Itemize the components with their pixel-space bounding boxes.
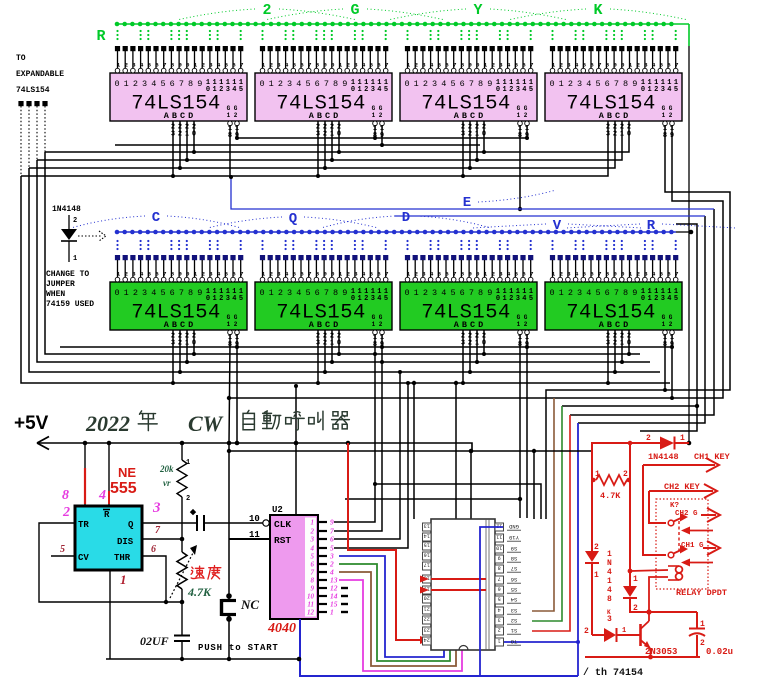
svg-text:0: 0 <box>404 288 409 298</box>
svg-text:9: 9 <box>330 518 334 527</box>
switch SW1 NC push to start <box>222 593 260 622</box>
svg-text:6: 6 <box>232 61 236 68</box>
svg-text:1: 1 <box>622 627 626 635</box>
svg-text:4: 4 <box>430 61 434 68</box>
svg-text:7: 7 <box>324 79 329 89</box>
svg-text:5: 5 <box>239 295 243 303</box>
svg-text:ABCD: ABCD <box>599 320 631 330</box>
svg-text:2: 2 <box>201 61 205 68</box>
svg-text:6: 6 <box>330 535 334 544</box>
svg-text:9: 9 <box>178 61 182 68</box>
svg-text:8: 8 <box>188 79 193 89</box>
svg-text:3: 3 <box>644 270 648 277</box>
svg-text:6: 6 <box>605 288 610 298</box>
svg-text:0: 0 <box>621 61 625 68</box>
svg-text:/ th 74154: / th 74154 <box>583 667 643 679</box>
svg-text:5: 5 <box>660 270 664 277</box>
svg-text:2: 2 <box>559 61 563 68</box>
svg-text:THR: THR <box>114 553 131 563</box>
svg-text:2: 2 <box>124 270 128 277</box>
svg-text:7: 7 <box>308 270 312 277</box>
wire mid-band to 4040 rows 3-4 <box>334 370 410 548</box>
svg-text:2: 2 <box>414 270 418 277</box>
net B-bus top (y168) <box>29 135 615 168</box>
svg-text:10: 10 <box>307 593 315 601</box>
svg-text:1: 1 <box>117 270 121 277</box>
svg-text:3: 3 <box>432 288 437 298</box>
svg-text:6: 6 <box>151 544 156 555</box>
555 pin number labels <box>60 488 161 587</box>
relay K1 coil <box>668 566 727 598</box>
capacitor C2 0.2UF <box>140 602 190 659</box>
74LS154 U3 body <box>400 73 537 121</box>
svg-text:Q: Q <box>289 211 297 227</box>
wire Q6 green <box>339 564 450 661</box>
svg-text:3: 3 <box>567 61 571 68</box>
svg-text:3: 3 <box>226 295 230 303</box>
wire GND blue bottom rail <box>297 619 578 676</box>
svg-text:1: 1 <box>607 577 612 586</box>
U8 pins A B C D (23,22,21,20) <box>606 330 631 348</box>
wire blue V net <box>395 215 705 217</box>
svg-text:8: 8 <box>607 595 612 604</box>
U1 pins G1 G2 (18,19) <box>228 121 240 140</box>
svg-text:3: 3 <box>661 295 665 303</box>
svg-text:5: 5 <box>370 61 374 68</box>
svg-text:0: 0 <box>549 79 554 89</box>
svg-text:8: 8 <box>316 61 320 68</box>
svg-text:8: 8 <box>478 288 483 298</box>
svg-text:8: 8 <box>62 488 69 503</box>
svg-text:4: 4 <box>377 86 381 94</box>
U6 pins A B C D (23,22,21,20) <box>316 330 341 348</box>
svg-text:2: 2 <box>568 288 573 298</box>
wire bus right vertical (to +5V red node) <box>688 46 690 443</box>
diode D2 1N4148 top <box>646 434 689 462</box>
svg-text:8: 8 <box>316 270 320 277</box>
svg-text:1: 1 <box>498 638 501 644</box>
svg-text:2: 2 <box>559 270 563 277</box>
svg-text:2: 2 <box>133 79 138 89</box>
svg-text:0: 0 <box>259 288 264 298</box>
svg-text:G: G <box>350 2 359 19</box>
svg-text:3: 3 <box>287 79 292 89</box>
svg-text:1: 1 <box>124 79 129 89</box>
svg-text:1: 1 <box>559 79 564 89</box>
node R (green, left) <box>96 28 105 45</box>
U7 pins G1 G2 (18,19) <box>518 330 530 349</box>
svg-text:1: 1 <box>194 270 198 277</box>
svg-text:4: 4 <box>151 79 156 89</box>
svg-text:5: 5 <box>450 79 455 89</box>
svg-text:9: 9 <box>487 79 492 89</box>
svg-text:4: 4 <box>285 270 289 277</box>
net +5V rail <box>14 413 691 453</box>
svg-text:S9: S9 <box>511 545 518 552</box>
svg-text:4: 4 <box>441 79 446 89</box>
node 2 (green bus label) <box>177 2 357 20</box>
svg-text:4: 4 <box>377 295 381 303</box>
svg-text:5: 5 <box>160 79 165 89</box>
svg-text:02UF: 02UF <box>140 634 169 648</box>
svg-text:7: 7 <box>453 61 457 68</box>
net bus-middle (blue row bus) <box>115 230 676 235</box>
node CH2 KEY <box>649 482 717 523</box>
svg-text:9: 9 <box>311 585 315 593</box>
svg-text:4: 4 <box>607 586 612 595</box>
svg-text:13: 13 <box>424 523 430 529</box>
node D (blue bus label) <box>321 210 491 228</box>
wire 555 DIS pin7 <box>142 537 184 542</box>
svg-text:G G: G G <box>372 314 383 321</box>
svg-text:3: 3 <box>132 61 136 68</box>
svg-text:0: 0 <box>186 61 190 68</box>
svg-text:2: 2 <box>186 495 190 503</box>
svg-text:24: 24 <box>424 637 430 643</box>
svg-text:7: 7 <box>163 270 167 277</box>
svg-text:2: 2 <box>346 270 350 277</box>
svg-text:4: 4 <box>217 270 221 277</box>
node G (green bus label) <box>265 2 445 20</box>
wire 4040 VDD drop <box>294 384 298 515</box>
svg-text:NC: NC <box>240 597 259 612</box>
blue bus ticks <box>116 240 676 250</box>
svg-text:8: 8 <box>478 79 483 89</box>
svg-text:74LS154: 74LS154 <box>16 86 50 95</box>
svg-text:6: 6 <box>667 61 671 68</box>
svg-text:1: 1 <box>552 61 556 68</box>
svg-text:9: 9 <box>323 270 327 277</box>
wire U5 G1 to +5V rail / RST chain <box>227 344 270 661</box>
svg-text:3: 3 <box>310 536 315 544</box>
svg-text:5: 5 <box>148 270 152 277</box>
wire U5 G2 drop <box>236 344 238 443</box>
svg-text:555: 555 <box>110 480 137 497</box>
svg-text:12: 12 <box>307 609 315 617</box>
svg-text:6: 6 <box>170 288 175 298</box>
net A-bus top (y176) <box>21 135 608 176</box>
svg-text:ABCD: ABCD <box>309 111 341 121</box>
svg-text:7: 7 <box>598 270 602 277</box>
net D-bus top (y152) <box>45 135 629 152</box>
svg-text:6: 6 <box>590 270 594 277</box>
connector TO EXPANDABLE 74LS154 (left header) <box>16 54 64 176</box>
wire red emitter rail <box>585 655 700 660</box>
svg-text:ABCD: ABCD <box>454 320 486 330</box>
svg-text:CW: CW <box>188 411 224 436</box>
svg-text:1: 1 <box>559 288 564 298</box>
svg-text:3: 3 <box>516 295 520 303</box>
svg-text:R: R <box>647 218 656 234</box>
svg-text:2: 2 <box>278 79 283 89</box>
svg-text:6: 6 <box>377 270 381 277</box>
svg-text:1: 1 <box>73 255 77 263</box>
svg-text:6: 6 <box>155 270 159 277</box>
capacitor C1 coupling <box>142 509 263 531</box>
net G1-bus (y138) <box>237 137 527 139</box>
svg-text:6: 6 <box>315 288 320 298</box>
U5 pins A B C D (23,22,21,20) <box>171 330 196 348</box>
svg-text:7: 7 <box>469 288 474 298</box>
svg-text:7: 7 <box>163 61 167 68</box>
svg-text:4: 4 <box>607 568 612 577</box>
svg-text:1: 1 <box>194 61 198 68</box>
svg-text:14: 14 <box>424 533 430 539</box>
svg-text:5: 5 <box>583 270 587 277</box>
svg-text:1 2: 1 2 <box>662 321 673 328</box>
74LS154 U8 body <box>545 282 682 330</box>
svg-text:9: 9 <box>487 288 492 298</box>
U10 output pins Q1-Q12 <box>305 518 348 617</box>
diode D4 vertical mid <box>623 441 668 613</box>
junction blue bus right end <box>676 230 693 235</box>
svg-text:8: 8 <box>171 61 175 68</box>
svg-text:9: 9 <box>468 270 472 277</box>
svg-text:23: 23 <box>424 627 430 633</box>
U2 pins G1 G2 (18,19) <box>373 121 385 140</box>
svg-text:vr: vr <box>163 478 171 488</box>
svg-text:1 2: 1 2 <box>227 112 238 119</box>
svg-text:ABCD: ABCD <box>164 320 196 330</box>
svg-text:K?: K? <box>670 502 680 510</box>
diode D5 base feed <box>584 627 640 642</box>
svg-text:WHEN: WHEN <box>46 290 65 299</box>
svg-text:2: 2 <box>262 2 271 19</box>
U8 top pins 1-17 <box>550 255 679 282</box>
node CH2 G + contact <box>668 508 720 535</box>
svg-text:6: 6 <box>377 61 381 68</box>
svg-text:4: 4 <box>285 61 289 68</box>
svg-text:S5: S5 <box>511 586 518 593</box>
svg-text:Q: Q <box>128 520 134 530</box>
svg-text:1 2: 1 2 <box>227 321 238 328</box>
svg-text:3: 3 <box>577 288 582 298</box>
svg-text:3: 3 <box>152 500 161 516</box>
svg-text:1 2: 1 2 <box>372 112 383 119</box>
svg-text:4.7K: 4.7K <box>187 585 212 599</box>
svg-text:4: 4 <box>652 270 656 277</box>
wire relay coil to collector <box>646 577 697 615</box>
node Y (green bus label) <box>388 2 568 20</box>
svg-text:1: 1 <box>311 519 315 527</box>
74LS154 U2 body <box>255 73 392 121</box>
svg-text:3: 3 <box>607 615 612 624</box>
svg-text:1: 1 <box>484 61 488 68</box>
svg-text:2: 2 <box>646 434 651 443</box>
svg-text:C: C <box>152 210 161 226</box>
J1 right pins 12-1 <box>495 523 521 646</box>
svg-text:2: 2 <box>346 61 350 68</box>
svg-text:6: 6 <box>522 270 526 277</box>
op-amp/timer U9 NE555 <box>75 506 142 570</box>
svg-text:7: 7 <box>498 576 501 582</box>
resistor R1 20k vr <box>159 443 190 539</box>
svg-text:1: 1 <box>633 575 638 584</box>
svg-text:5: 5 <box>384 86 388 94</box>
U6 top pins 1-17 <box>260 255 389 282</box>
svg-text:5: 5 <box>60 544 65 555</box>
svg-text:1: 1 <box>186 459 190 467</box>
svg-text:4: 4 <box>310 545 315 553</box>
svg-text:6: 6 <box>498 586 501 592</box>
wire 555 pin4 reset <box>108 443 110 506</box>
svg-text:2: 2 <box>133 288 138 298</box>
svg-text:4: 4 <box>430 270 434 277</box>
svg-text:1: 1 <box>269 288 274 298</box>
svg-text:N: N <box>607 559 612 568</box>
svg-text:RELAY DPDT: RELAY DPDT <box>676 588 727 598</box>
svg-text:2: 2 <box>73 217 77 225</box>
svg-text:5: 5 <box>148 61 152 68</box>
svg-text:1: 1 <box>269 79 274 89</box>
svg-text:11: 11 <box>496 534 502 540</box>
svg-text:6: 6 <box>667 270 671 277</box>
svg-text:9: 9 <box>613 61 617 68</box>
svg-text:8: 8 <box>461 61 465 68</box>
wire U6 G pins to 4040 rows 1-2 <box>334 344 384 531</box>
svg-text:4: 4 <box>507 270 511 277</box>
svg-text:2: 2 <box>584 627 589 636</box>
svg-text:0: 0 <box>259 79 264 89</box>
U8 pins G1 G2 (18,19) <box>663 330 675 349</box>
svg-text:2: 2 <box>310 528 315 536</box>
svg-text:1: 1 <box>629 270 633 277</box>
svg-text:7: 7 <box>324 288 329 298</box>
svg-text:5: 5 <box>674 86 678 94</box>
svg-text:5: 5 <box>311 553 315 561</box>
wires to J1 top (black verticals) <box>0 0 1 1</box>
U4 top pins 1-17 <box>550 46 679 73</box>
svg-text:1N4148: 1N4148 <box>648 452 679 462</box>
svg-text:9: 9 <box>613 270 617 277</box>
svg-text:ABCD: ABCD <box>599 111 631 121</box>
svg-text:8: 8 <box>461 270 465 277</box>
node Q (blue bus label) <box>208 211 378 228</box>
svg-text:5: 5 <box>239 86 243 94</box>
svg-text:1: 1 <box>120 572 127 587</box>
U4 pins G1 G2 (18,19) <box>663 121 675 140</box>
74LS154 U4 body <box>545 73 682 121</box>
svg-text:3: 3 <box>226 86 230 94</box>
svg-text:9: 9 <box>197 79 202 89</box>
svg-text:7: 7 <box>179 288 184 298</box>
svg-text:0: 0 <box>114 288 119 298</box>
svg-text:R: R <box>104 510 110 520</box>
J1 internal red links pins 18,19 <box>420 576 486 594</box>
svg-text:5: 5 <box>225 270 229 277</box>
svg-text:6: 6 <box>311 561 315 569</box>
svg-text:17: 17 <box>424 562 430 568</box>
svg-text:5: 5 <box>583 61 587 68</box>
node V (blue bus label) <box>472 218 642 234</box>
svg-text:3: 3 <box>354 61 358 68</box>
connector J1 (74154 header socket) <box>431 519 495 650</box>
svg-text:1 2: 1 2 <box>517 321 528 328</box>
note CHANGE TO JUMPER WHEN 74159 USED <box>46 270 94 309</box>
wire 555 TR-THR feedback loop <box>39 523 184 604</box>
svg-text:S7: S7 <box>511 565 518 572</box>
svg-text:1: 1 <box>407 61 411 68</box>
wire red +5V feed <box>592 443 660 451</box>
svg-text:G G: G G <box>517 105 528 112</box>
svg-text:4: 4 <box>586 288 591 298</box>
svg-text:G G: G G <box>227 105 238 112</box>
svg-text:1: 1 <box>552 270 556 277</box>
svg-text:S3: S3 <box>511 607 518 614</box>
U3 top pins 1-17 <box>405 46 534 73</box>
svg-text:U2: U2 <box>272 505 283 515</box>
svg-text:0.02u: 0.02u <box>706 647 733 657</box>
svg-text:2: 2 <box>423 79 428 89</box>
svg-text:7: 7 <box>453 270 457 277</box>
top IC pin drop wires and junctions <box>171 135 529 211</box>
svg-text:8: 8 <box>498 565 501 571</box>
svg-text:D: D <box>402 210 410 226</box>
relay K1 DPDT dotted frame <box>656 499 708 589</box>
node E (blue label) <box>463 190 556 211</box>
svg-text:4: 4 <box>362 270 366 277</box>
svg-text:16: 16 <box>424 552 430 558</box>
node CH1 G + contact <box>668 521 720 567</box>
svg-text:2: 2 <box>414 61 418 68</box>
svg-text:4: 4 <box>140 270 144 277</box>
svg-text:4: 4 <box>667 295 671 303</box>
wire rail-to-connector drops <box>345 381 541 519</box>
wire 555 CV stub pin5 <box>51 555 75 557</box>
wire Q5 blue <box>339 556 444 657</box>
svg-text:5: 5 <box>515 270 519 277</box>
svg-text:3: 3 <box>577 79 582 89</box>
svg-text:5: 5 <box>438 270 442 277</box>
svg-text:9: 9 <box>342 288 347 298</box>
svg-text:3: 3 <box>354 270 358 277</box>
wire blue E net <box>229 175 714 209</box>
svg-text:3: 3 <box>371 295 375 303</box>
svg-text:4: 4 <box>362 61 366 68</box>
svg-text:4: 4 <box>498 607 501 613</box>
svg-text:2: 2 <box>201 270 205 277</box>
svg-text:6: 6 <box>445 270 449 277</box>
svg-text:7: 7 <box>385 61 389 68</box>
svg-text:0: 0 <box>186 270 190 277</box>
svg-text:7: 7 <box>308 61 312 68</box>
svg-text:S1: S1 <box>510 627 517 634</box>
svg-text:7: 7 <box>530 270 534 277</box>
svg-text:20k: 20k <box>159 464 174 474</box>
svg-text:8: 8 <box>606 61 610 68</box>
svg-text:CLK: CLK <box>274 519 291 530</box>
svg-text:3: 3 <box>277 270 281 277</box>
net G-bus middle (y347) <box>60 345 674 349</box>
svg-text:CHANGE TO: CHANGE TO <box>46 270 89 279</box>
svg-text:1: 1 <box>484 270 488 277</box>
U5 top pins 1-17 <box>115 255 244 282</box>
svg-text:G G: G G <box>662 314 673 321</box>
svg-text:21: 21 <box>424 606 430 612</box>
svg-text:PUSH to START: PUSH to START <box>198 643 279 653</box>
U3 pins A B C D (23,22,21,20) <box>461 121 486 139</box>
svg-text:2: 2 <box>491 61 495 68</box>
U5 pins G1 G2 (18,19) <box>228 330 240 349</box>
svg-text:4: 4 <box>296 288 301 298</box>
net bus-top (green row bus) <box>115 22 689 27</box>
svg-text:S4: S4 <box>510 596 517 603</box>
svg-text:2: 2 <box>623 470 628 479</box>
svg-text:8: 8 <box>606 270 610 277</box>
title 2022 CW auto-caller <box>85 410 349 436</box>
svg-text:7: 7 <box>614 79 619 89</box>
svg-text:Y: Y <box>473 2 482 19</box>
